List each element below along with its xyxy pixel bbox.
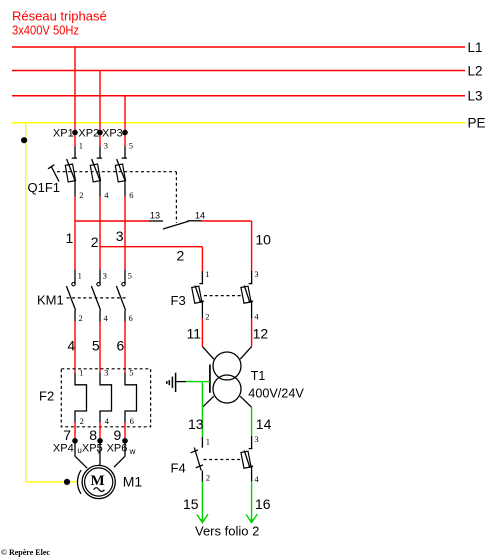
wire L2 phase bus: [12, 70, 465, 72]
fuse F3 right pole (pins 3-4): [241, 269, 259, 321]
node PE label: [468, 116, 486, 131]
circuit breaker Q1F1 pole 1 (pins 1-2): [65, 141, 83, 201]
node wire-4 label: [67, 337, 75, 353]
fuse F3 label: [171, 293, 186, 308]
svg-text:u: u: [77, 446, 81, 455]
svg-text:8: 8: [89, 427, 97, 443]
wire earth to screen (green): [186, 381, 210, 383]
svg-text:5: 5: [129, 368, 133, 378]
wire XP4 to motor U: [75, 441, 87, 468]
svg-text:7: 7: [63, 427, 71, 443]
contactor KM1 pole 1 (pins 1-2): [66, 270, 82, 323]
svg-text:400V/24V: 400V/24V: [248, 387, 304, 401]
svg-text:2: 2: [177, 248, 185, 264]
svg-text:3: 3: [104, 368, 108, 378]
thermal relay F2 enclosure (dashed box): [61, 369, 150, 427]
svg-text:3: 3: [254, 434, 258, 444]
svg-text:XP3: XP3: [102, 128, 123, 140]
wire L2 drop to XP2: [99, 71, 101, 147]
circuit breaker Q1F1 mechanical link (dashed): [57, 172, 176, 223]
terminal XP3: [102, 128, 128, 140]
fuse F3 mechanical link (dashed): [204, 295, 243, 297]
wire 11 (F3 to T1): [201, 319, 203, 347]
node wire-7 label: [63, 427, 71, 443]
wire L3 phase bus: [12, 95, 465, 97]
thermal relay F2 element 1 (pins 1-2): [75, 368, 87, 427]
svg-text:1: 1: [78, 271, 82, 281]
svg-text:5: 5: [128, 271, 132, 281]
svg-text:M1: M1: [123, 474, 143, 490]
svg-text:L1: L1: [468, 40, 483, 55]
svg-text:2: 2: [206, 472, 210, 482]
svg-text:2: 2: [79, 313, 83, 323]
transformer T1 secondary lead right: [240, 396, 251, 407]
svg-text:KM1: KM1: [37, 292, 64, 307]
fuse F3 left pole (pins 1-2): [192, 269, 210, 321]
svg-text:5: 5: [92, 337, 100, 353]
transformer T1 primary lead right: [240, 347, 251, 360]
svg-text:6: 6: [130, 416, 134, 426]
svg-text:XP2: XP2: [78, 128, 99, 140]
motor M1 label: [123, 474, 143, 490]
svg-text:15: 15: [183, 496, 199, 512]
terminal XP6: [107, 438, 128, 455]
node wire-6 label: [117, 337, 125, 353]
wire 14 (T1 secondary to F4): [251, 407, 253, 436]
svg-text:M: M: [91, 473, 105, 489]
node wire-12 label: [253, 326, 269, 342]
contactor KM1 pole 2 (pins 3-4): [91, 270, 108, 323]
wire PE protective-earth bus: [12, 122, 465, 124]
motor M1 frame earth arc: [77, 470, 81, 494]
switch-fuse F4 mechanical link (dashed): [204, 459, 243, 461]
node L1 label: [468, 40, 483, 55]
svg-text:3: 3: [103, 271, 107, 281]
node wire-11 label: [187, 326, 202, 342]
wire 9 (F2 to XP6): [124, 422, 126, 441]
svg-text:3x400V 50Hz: 3x400V 50Hz: [12, 23, 79, 38]
wire 15 (to folio 2): [197, 482, 208, 523]
thermal relay F2 label: [39, 389, 54, 404]
wire PE branch to motor: [26, 123, 78, 482]
node wire-9 label: [114, 427, 122, 443]
wire XP5 to motor V: [99, 441, 101, 466]
node L3 label: [468, 89, 483, 104]
node wire-3 label: [116, 228, 124, 244]
circuit breaker Q1F1 pole 3 (pins 5-6): [115, 141, 133, 201]
svg-text:Réseau triphasé: Réseau triphasé: [12, 9, 107, 24]
node wire-5 label: [92, 337, 100, 353]
svg-text:11: 11: [187, 326, 202, 342]
svg-text:1: 1: [66, 230, 74, 246]
wire 1 (Q1F1 pole1 to KM1): [74, 197, 76, 270]
node PE-to-motor dot: [64, 479, 70, 485]
title Réseau triphasé 3x400V 50Hz: [12, 9, 107, 38]
wire 4 (KM1 to F2): [74, 322, 76, 373]
motor terminal letter w: [129, 447, 136, 456]
node L2 label: [468, 63, 483, 78]
node wire-2 branch label: [177, 248, 185, 264]
circuit breaker Q1F1 label: [28, 180, 61, 195]
wire L1 phase bus: [12, 46, 465, 48]
note Vers folio 2: [195, 523, 259, 538]
circuit breaker Q1F1 pole 2 (pins 3-4): [90, 141, 109, 201]
svg-text:4: 4: [105, 416, 110, 426]
svg-text:Vers folio 2: Vers folio 2: [195, 523, 259, 538]
svg-text:XP6: XP6: [107, 443, 128, 455]
copyright note: [1, 548, 50, 557]
terminal XP1: [53, 128, 78, 140]
svg-text:F2: F2: [39, 389, 54, 404]
wire 16 (to folio 2): [246, 482, 257, 523]
svg-text:6: 6: [129, 313, 133, 323]
svg-text:4: 4: [254, 311, 259, 321]
transformer T1 electrostatic screen: [209, 365, 211, 393]
motor terminal letter u: [77, 446, 81, 455]
svg-text:PE: PE: [468, 116, 486, 131]
svg-text:XP4: XP4: [53, 443, 74, 455]
transformer T1 secondary lead left: [202, 396, 213, 407]
contactor KM1 mechanical link (dashed): [67, 297, 128, 299]
wire 2 branch to F3 left pole: [100, 247, 202, 271]
thermal relay F2 element 2 (pins 3-4): [100, 368, 112, 427]
aux contact 13-14 of Q1F1: [149, 211, 205, 229]
transformer T1 windings: [213, 352, 241, 403]
node wire-1 label: [66, 230, 74, 246]
svg-text:4: 4: [104, 190, 109, 200]
svg-text:14: 14: [195, 211, 205, 221]
svg-text:© Repère Elec: © Repère Elec: [1, 548, 50, 557]
svg-text:1: 1: [206, 437, 210, 447]
terminal XP4: [53, 438, 78, 455]
node wire-8 label: [89, 427, 97, 443]
wire 5 (KM1 to F2): [99, 322, 101, 373]
wire 2 (Q1F1 pole2 to KM1): [99, 197, 101, 270]
wire L1 drop to XP1: [74, 47, 76, 147]
wire L3 drop to XP3: [124, 96, 126, 147]
transformer T1 primary lead left: [202, 347, 213, 360]
svg-text:10: 10: [255, 232, 271, 248]
wire 6 (KM1 to F2): [124, 322, 126, 373]
transformer T1 label: [251, 369, 266, 383]
svg-text:16: 16: [255, 496, 271, 512]
circuit breaker Q1F1 manual actuator: [48, 165, 59, 182]
svg-text:4: 4: [254, 474, 259, 484]
thermal relay F2 element 3 (pins 5-6): [125, 368, 137, 427]
terminal XP2: [78, 128, 102, 140]
node wire-10 label: [255, 232, 271, 248]
fuse F4 right pole (pins 3-4): [241, 434, 259, 484]
svg-text:1: 1: [79, 141, 83, 151]
wire 12 (F3 to T1): [251, 319, 253, 347]
svg-text:5: 5: [129, 141, 133, 151]
svg-text:F3: F3: [171, 293, 186, 308]
svg-text:Q1F1: Q1F1: [28, 180, 61, 195]
svg-text:9: 9: [114, 427, 122, 443]
svg-text:13: 13: [188, 416, 204, 432]
wire 7 (F2 to XP4): [74, 422, 76, 441]
motor terminal letter v: [97, 447, 101, 456]
svg-text:1: 1: [79, 368, 83, 378]
svg-text:2: 2: [91, 234, 99, 250]
svg-text:14: 14: [256, 416, 272, 432]
svg-text:12: 12: [253, 326, 269, 342]
svg-text:L3: L3: [468, 89, 483, 104]
wire from node 1 to aux contact 13: [75, 220, 149, 222]
switch F4 left pole (pins 1-2): [191, 437, 211, 483]
wire 8 (F2 to XP5): [99, 422, 101, 441]
contactor KM1 label: [37, 292, 64, 307]
wire 3 (Q1F1 pole3 to KM1): [124, 197, 126, 270]
node wire-15 label: [183, 496, 199, 512]
node wire-14 label: [256, 416, 272, 432]
motor M1 body: [82, 465, 115, 498]
svg-text:13: 13: [150, 211, 160, 221]
svg-text:3: 3: [104, 141, 108, 151]
svg-text:F4: F4: [171, 460, 186, 475]
transformer T1 rating label: [248, 387, 304, 401]
svg-text:6: 6: [129, 190, 133, 200]
svg-text:2: 2: [205, 311, 209, 321]
node wire-13 label: [188, 416, 204, 432]
ground symbol (secondary earth): [167, 373, 186, 392]
svg-text:XP1: XP1: [53, 128, 74, 140]
wire 10 (aux 14 to F3 right pole): [202, 221, 252, 271]
node wire-16 label: [255, 496, 271, 512]
svg-text:6: 6: [117, 337, 125, 353]
switch-fuse F4 label: [171, 460, 186, 475]
svg-text:2: 2: [80, 416, 84, 426]
node wire-2 label: [91, 234, 99, 250]
svg-text:w: w: [129, 447, 136, 456]
svg-text:2: 2: [79, 190, 83, 200]
svg-text:T1: T1: [251, 369, 266, 383]
terminal XP5: [82, 438, 103, 455]
wire XP6 to motor W: [114, 441, 125, 467]
svg-text:4: 4: [67, 337, 75, 353]
svg-text:1: 1: [205, 269, 209, 279]
svg-text:3: 3: [116, 228, 124, 244]
wire 13 (T1 secondary to F4): [201, 382, 203, 437]
svg-text:4: 4: [104, 313, 109, 323]
contactor KM1 pole 3 (pins 5-6): [116, 270, 132, 323]
svg-text:L2: L2: [468, 63, 483, 78]
node PE terminal dot: [21, 137, 27, 143]
svg-text:3: 3: [254, 269, 258, 279]
